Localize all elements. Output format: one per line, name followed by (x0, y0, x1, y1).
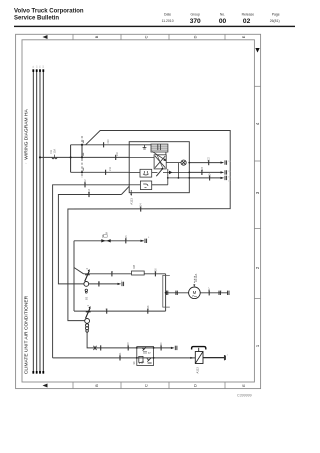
junction at bus feed tap (39, 156, 41, 158)
svg-text:214: 214 (140, 203, 143, 208)
wire panel A113 output 3 (189, 177, 221, 179)
outer drawing frame (16, 34, 261, 388)
right band dividers (254, 86, 260, 298)
svg-text:223: 223 (201, 166, 204, 171)
svg-text:15A: 15A (53, 149, 57, 154)
inline connector (bowtie) on V wire (101, 239, 110, 242)
designator label A113 with arrow (130, 190, 134, 205)
relay K (132, 347, 155, 366)
junctions on panel edge and motor tap (165, 162, 191, 294)
wire connector pin 3 to panel A113 (71, 171, 130, 173)
margin wire number labels (26, 149, 28, 164)
svg-text:00: 00 (219, 18, 227, 25)
svg-text:224: 224 (209, 172, 212, 177)
wire thermostat lower contact to connector (89, 283, 118, 285)
svg-text:Page: Page (272, 12, 280, 16)
pin pairs on blower motor wire (166, 291, 177, 295)
svg-text:02: 02 (243, 18, 251, 25)
diode inside panel (169, 171, 172, 175)
svg-text:M: M (193, 290, 197, 295)
terminator on clutch output (224, 356, 226, 360)
wire internal pin4 and sensor box 2 (129, 184, 140, 186)
wire thermostat to resistor R and blower motor (84, 273, 132, 275)
ground symbol inside panel (144, 145, 146, 148)
bottom band dividers (73, 382, 225, 389)
motor M (blower) A113A (189, 274, 201, 299)
fuse FH 15A inline connector (49, 149, 57, 159)
junction at distribution bar (70, 156, 72, 158)
wire to connector V (74, 240, 144, 242)
header columns (162, 12, 280, 23)
wire pressure switch upper contact (74, 310, 166, 312)
resistor R (132, 271, 145, 275)
svg-text:220: 220 (160, 342, 163, 347)
svg-text:D: D (193, 35, 198, 38)
thermostat switch B1 (84, 269, 90, 293)
connector bracket at blower unit (163, 275, 170, 307)
svg-text:212: 212 (84, 179, 87, 184)
bus wire number labels (33, 65, 45, 68)
svg-text:V: V (105, 232, 109, 234)
wire internal lamp feed staircase (167, 169, 169, 185)
svg-text:213: 213 (88, 188, 91, 193)
svg-text:B: B (94, 384, 99, 387)
svg-text:217: 217 (208, 287, 211, 292)
wire loop from connector around panel to pressure switch (68, 131, 230, 321)
wire thermostat feed vertical (73, 241, 75, 311)
svg-text:215: 215 (125, 235, 128, 240)
panel internals (129, 144, 189, 189)
wire number ticks (85, 142, 225, 360)
wire diagonal entry to panel A113 (121, 186, 129, 194)
svg-text:Volvo Truck Corporation: Volvo Truck Corporation (14, 9, 84, 15)
wire panel A113 pin to thermostat switch (58, 195, 121, 284)
band glyphs: right digits (255, 48, 260, 347)
wire connector pin 1 to panel A113 (71, 144, 130, 146)
wire internal pin2 (129, 156, 154, 158)
header rule (14, 26, 295, 27)
svg-text:11.2010: 11.2010 (162, 19, 174, 23)
svg-text:Service Bulletin: Service Bulletin (14, 16, 59, 22)
wire feed from bus to control panel A113 (40, 156, 129, 158)
svg-text:216: 216 (154, 268, 157, 273)
svg-text:Date: Date (164, 12, 171, 16)
band glyphs: bottom (43, 384, 247, 388)
svg-text:219: 219 (127, 342, 130, 347)
fan switch (blower) (154, 155, 166, 169)
svg-text:A113: A113 (130, 198, 134, 205)
svg-text:Release: Release (242, 12, 255, 16)
wire bus trunk (4 feed wires) (33, 70, 43, 374)
svg-text:221: 221 (119, 352, 122, 357)
band glyphs: top arrows/letters (43, 35, 247, 39)
arrow actuator into fan switch (152, 151, 165, 159)
svg-text:B3: B3 (85, 296, 89, 300)
wire pressure switch to relay K contact (87, 332, 171, 348)
svg-text:Group: Group (190, 12, 200, 16)
inner drawing frame (22, 40, 254, 382)
connector X1 (dashed) (81, 136, 83, 178)
svg-text:370: 370 (190, 18, 201, 25)
svg-text:CLIMATE UNIT AIR CONDITIONER: CLIMATE UNIT AIR CONDITIONER (24, 295, 30, 374)
terminator on relay to clutch wire (171, 346, 177, 350)
svg-text:R8: R8 (132, 264, 136, 268)
svg-text:B: B (94, 35, 99, 38)
pressure switch B2 (85, 306, 91, 332)
compressor clutch Y1 (190, 347, 206, 374)
svg-text:218: 218 (147, 305, 150, 310)
pin pair and terminator on motor output (219, 291, 229, 295)
wire panel A113 output 2 (189, 171, 221, 173)
pin number labels at terminators (121, 161, 231, 356)
wire number labels (84, 139, 212, 357)
wire internal pin3 and sensor box 1 (129, 171, 140, 173)
svg-text:E: E (241, 35, 246, 38)
top band dividers (73, 34, 225, 40)
wire panel A113 output 1 (189, 162, 221, 164)
svg-text:26(81): 26(81) (270, 19, 280, 23)
svg-text:A113A: A113A (194, 274, 198, 282)
svg-text:E: E (241, 384, 246, 387)
svg-text:210: 210 (107, 139, 110, 144)
svg-text:D: D (193, 384, 198, 387)
wire panel A113 pin to relay K coil (53, 185, 130, 358)
wire clutch Y1 output (thick) (203, 357, 225, 359)
heater resistor block (151, 144, 168, 152)
svg-text:No.: No. (220, 12, 225, 16)
header title (14, 9, 84, 22)
switch lever inside panel (156, 168, 163, 176)
svg-text:222: 222 (208, 157, 211, 162)
indicator lamp (181, 160, 186, 165)
svg-text:211: 211 (109, 166, 112, 171)
inline connector on pressure switch wire (94, 346, 97, 350)
svg-text:C: C (144, 384, 149, 387)
svg-text:FH: FH (49, 150, 53, 154)
svg-text:210: 210 (116, 151, 119, 156)
wire terminators (arrow + double bar) (118, 160, 227, 286)
svg-text:C: C (144, 35, 149, 38)
svg-text:C399999: C399999 (237, 394, 252, 398)
wire internal pin1 (129, 144, 151, 146)
node distribution bar (70, 145, 72, 173)
control panel A113 (129, 142, 189, 193)
wire relay K coil line to clutch Y1 (53, 357, 196, 359)
wire blower motor feed (166, 292, 189, 294)
svg-text:A113: A113 (196, 367, 200, 374)
